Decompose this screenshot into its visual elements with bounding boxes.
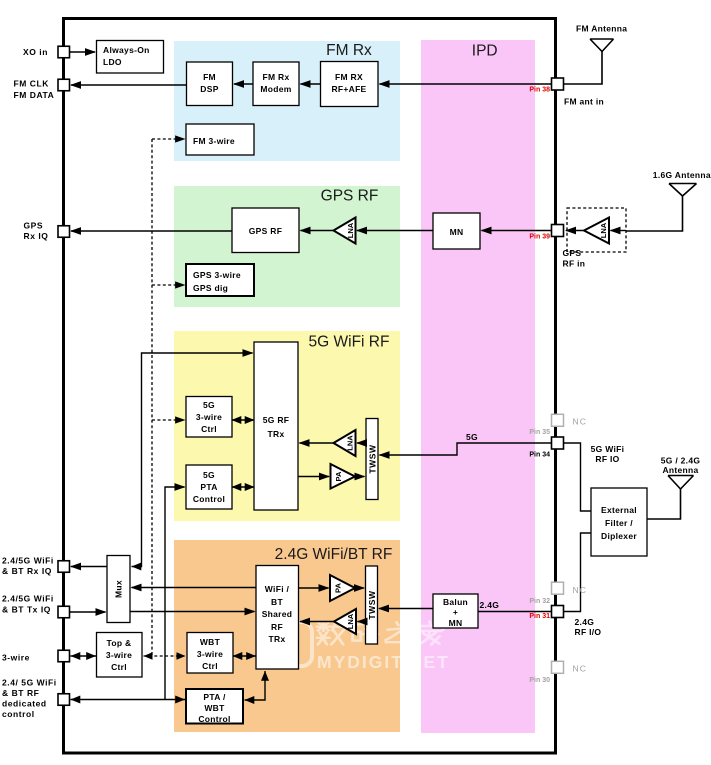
chip outline (64, 19, 556, 754)
svg-text:2.4G: 2.4G (575, 617, 595, 627)
block Balun + MN (433, 594, 478, 628)
wire 5G 3-wire Ctrl to TRx (232, 419, 255, 421)
svg-text:NC: NC (573, 585, 587, 595)
svg-text:Modem: Modem (260, 84, 291, 94)
svg-text:5G: 5G (203, 470, 215, 480)
svg-text:2.4G WiFi/BT RF: 2.4G WiFi/BT RF (275, 546, 393, 563)
pin 3-wire (58, 650, 70, 662)
svg-text:FM Rx: FM Rx (326, 42, 372, 59)
svg-text:dedicated: dedicated (2, 699, 47, 709)
svg-text:Top &: Top & (107, 638, 132, 648)
svg-text:Pin 39: Pin 39 (529, 234, 550, 241)
svg-text:Pin 32: Pin 32 (529, 598, 550, 605)
pin 34 (552, 437, 564, 449)
svg-text:1.6G Antenna: 1.6G Antenna (653, 170, 711, 180)
svg-text:Mux: Mux (114, 580, 124, 598)
wire ext LNA to pin39 (566, 230, 584, 232)
wire PTA control feed (165, 487, 185, 700)
wire FM Rx Modem to FM DSP (234, 83, 253, 85)
svg-text:TRx: TRx (268, 429, 285, 439)
wire TRx to 2.4G PA (299, 587, 329, 589)
wire FM antenna to pin38 (564, 52, 602, 85)
wire Balun to pin31 (478, 611, 552, 613)
pin dedicated control (58, 694, 70, 706)
svg-text:TWSW: TWSW (368, 444, 378, 474)
wire TRx to 5G PA (298, 476, 329, 478)
svg-text:FM: FM (203, 72, 216, 82)
block GPS RF (232, 208, 299, 253)
svg-text:3-wire: 3-wire (197, 649, 223, 659)
svg-text:FM DATA: FM DATA (14, 90, 55, 100)
svg-text:WBT: WBT (200, 637, 221, 647)
block 5G PTA Control (186, 465, 232, 509)
svg-text:RF IO: RF IO (595, 454, 619, 464)
svg-text:PTA /: PTA / (203, 692, 226, 702)
amplifier LNA external GPS (584, 218, 609, 244)
5G WiFi RF region (174, 331, 400, 521)
wire 2.4G LNA to TRx (300, 621, 334, 623)
switch TWSW 5G (366, 419, 378, 500)
svg-text:PA: PA (334, 471, 343, 481)
svg-text:Shared: Shared (262, 609, 293, 619)
svg-text:& BT RF: & BT RF (2, 688, 39, 698)
block Top & 3-wire Ctrl (97, 633, 143, 678)
wire Balun to TWSW (379, 608, 433, 610)
wire 5G PTA Control to TRx (232, 486, 255, 488)
block FM 3-wire (186, 124, 254, 155)
wire MN to LNA GPS (357, 230, 433, 232)
pin 39 (552, 225, 564, 237)
pin FM CLK/DATA (58, 79, 70, 91)
svg-text:5G: 5G (466, 432, 478, 442)
GPS RF region (174, 186, 400, 307)
FM Rx region (174, 41, 400, 161)
wire FM RX RF+AFE to FM Rx Modem (301, 83, 321, 85)
dashed wire to FM 3-wire (152, 138, 185, 140)
svg-text:Ctrl: Ctrl (201, 424, 217, 434)
svg-text:LDO: LDO (103, 57, 122, 67)
block 5G 3-wire Ctrl (186, 397, 232, 438)
svg-text:MN: MN (450, 227, 464, 237)
watermark CJK text (317, 622, 443, 645)
block External Filter / Diplexer (591, 488, 647, 556)
svg-text:Balun: Balun (443, 597, 468, 607)
svg-text:NC: NC (573, 417, 587, 427)
svg-text:Rx IQ: Rx IQ (24, 231, 49, 241)
wire pin38 to FM RX RF+AFE (380, 83, 552, 85)
block PTA / WBT Control (186, 689, 243, 724)
wire GPS RF to GPS Rx IQ pin (71, 230, 232, 232)
svg-text:5G / 2.4G: 5G / 2.4G (661, 456, 701, 466)
switch TWSW 2.4G (366, 566, 378, 644)
wire External Filter to pin31 (564, 533, 591, 612)
dashed control bus vertical (151, 139, 153, 656)
svg-text:NC: NC (573, 664, 587, 674)
wire TWSW to pin34 (380, 443, 552, 455)
pin 38 (552, 78, 564, 90)
block WiFi/BT Shared RF TRx (256, 566, 299, 670)
svg-text:Filter /: Filter / (605, 518, 633, 528)
block WBT 3-wire Ctrl (187, 633, 233, 674)
amplifier LNA 2.4G (334, 609, 356, 634)
svg-text:5G WiFi: 5G WiFi (591, 444, 625, 454)
pin 35 NC (552, 414, 564, 426)
char jia (417, 622, 443, 645)
svg-text:5G: 5G (203, 400, 215, 410)
svg-text:2.4/5G WiFi: 2.4/5G WiFi (2, 594, 54, 604)
amplifier PA 2.4G (330, 575, 355, 601)
char ma (350, 623, 378, 642)
svg-text:GPS: GPS (563, 248, 582, 258)
svg-text:Diplexer: Diplexer (601, 531, 637, 541)
IPD region (421, 40, 535, 733)
svg-text:GPS: GPS (24, 221, 44, 231)
pin 31 (552, 606, 564, 618)
svg-text:WBT: WBT (204, 703, 225, 713)
svg-text:PA: PA (334, 582, 343, 592)
svg-text:control: control (2, 709, 35, 719)
svg-text:FM Rx: FM Rx (263, 72, 290, 82)
2.4G WiFi/BT RF region (174, 540, 400, 732)
svg-text:3-wire: 3-wire (2, 653, 30, 663)
wire PTA/WBT Control to WiFi/BT TRx bottom (245, 671, 266, 700)
svg-text:5G RF: 5G RF (263, 415, 290, 425)
svg-text:RF: RF (271, 622, 283, 632)
pin 30 NC (552, 661, 564, 673)
block Always-On LDO (97, 41, 164, 74)
wire 2.4G PA to TWSW (355, 587, 364, 589)
watermark logo (268, 622, 312, 666)
svg-text:FM CLK: FM CLK (14, 79, 50, 89)
wire Tx IQ pin to Mux (70, 611, 106, 613)
svg-text:& BT Tx IQ: & BT Tx IQ (2, 605, 51, 615)
svg-text:Ctrl: Ctrl (111, 662, 127, 672)
svg-text:FM RX: FM RX (335, 72, 363, 82)
wire FM DSP to FM CLK/DATA pin (71, 84, 187, 86)
pin GPS Rx IQ (58, 226, 70, 238)
svg-text:BT: BT (271, 597, 283, 607)
wire XO in pin to LDO (70, 51, 96, 53)
svg-text:WiFi /: WiFi / (265, 584, 290, 594)
svg-text:MN: MN (449, 618, 463, 628)
amplifier PA 5G (331, 464, 356, 489)
wire WBT 3-wire Ctrl to WiFi/BT TRx (233, 655, 257, 657)
svg-text:3-wire: 3-wire (106, 650, 132, 660)
wire pin39 to MN (482, 230, 552, 232)
pin 32 NC (552, 582, 564, 594)
svg-text:RF in: RF in (563, 259, 586, 269)
svg-text:Pin 35: Pin 35 (529, 429, 550, 436)
svg-text:Control: Control (198, 714, 230, 724)
svg-text:LNA: LNA (346, 435, 355, 451)
svg-text:& BT Rx IQ: & BT Rx IQ (2, 566, 52, 576)
FM antenna symbol (590, 39, 614, 52)
svg-text:Always-On: Always-On (103, 45, 150, 55)
pin Tx IQ (58, 606, 70, 618)
svg-text:RF+AFE: RF+AFE (331, 84, 366, 94)
1.6G antenna symbol (669, 184, 697, 197)
svg-text:FM Antenna: FM Antenna (576, 24, 627, 34)
amplifier LNA GPS (334, 218, 356, 244)
svg-text:LNA: LNA (346, 613, 355, 629)
wire Mux to WiFi/BT TRx (130, 611, 255, 613)
dashed wire Top Ctrl to WBT 3-wire Ctrl (144, 655, 186, 657)
svg-text:MYDIGIT.NET: MYDIGIT.NET (317, 652, 450, 672)
svg-text:Pin 38: Pin 38 (529, 87, 550, 94)
svg-text:GPS RF: GPS RF (321, 188, 379, 205)
5G/2.4G antenna symbol (668, 476, 694, 490)
wire TWSW to 5G LNA (357, 442, 366, 444)
wire 5G LNA to TRx (300, 442, 334, 444)
wire 5G/2.4G antenna to External Filter (647, 489, 681, 519)
block FM Rx Modem (253, 62, 299, 106)
amplifier LNA 5G (334, 430, 356, 456)
block FM DSP (187, 62, 233, 106)
wire dedicated control pin to PTA/WBT Control (71, 699, 186, 701)
wire LNA GPS to GPS RF (301, 230, 334, 232)
dashed wire to 5G 3-wire Ctrl (152, 419, 185, 421)
svg-text:Pin 30: Pin 30 (529, 677, 550, 684)
pin Rx IQ (58, 561, 70, 573)
wire 5G PA to TWSW (355, 476, 365, 478)
svg-text:Control: Control (193, 494, 225, 504)
block MN (433, 213, 480, 249)
svg-text:DSP: DSP (200, 84, 218, 94)
svg-text:3-wire: 3-wire (196, 412, 222, 422)
external LNA dashed box (567, 208, 626, 252)
svg-text:External: External (601, 505, 637, 515)
svg-text:LNA: LNA (346, 222, 355, 238)
svg-text:PTA: PTA (200, 482, 217, 492)
svg-text:TRx: TRx (269, 634, 286, 644)
svg-text:5G WiFi RF: 5G WiFi RF (309, 334, 390, 351)
wire WiFi/BT TRx to Mux (132, 587, 257, 589)
block FM RX RF+AFE (321, 62, 379, 107)
svg-text:2.4/ 5G WiFi: 2.4/ 5G WiFi (2, 678, 57, 688)
wire pin34 to External Filter (564, 443, 592, 511)
svg-text:XO in: XO in (23, 47, 48, 57)
svg-text:IPD: IPD (472, 43, 498, 60)
svg-text:Pin 34: Pin 34 (529, 452, 550, 459)
svg-text:Antenna: Antenna (662, 465, 698, 475)
char zhi (386, 622, 409, 642)
svg-text:LNA: LNA (599, 222, 608, 238)
dashed wire to GPS 3-wire (152, 284, 185, 286)
block Mux (107, 556, 130, 623)
svg-text:FM ant in: FM ant in (564, 97, 604, 107)
wire Mux to Rx IQ pin (71, 566, 107, 568)
wire TWSW to 2.4G LNA (358, 621, 366, 623)
svg-text:FM 3-wire: FM 3-wire (193, 136, 235, 146)
svg-text:Pin 31: Pin 31 (529, 613, 550, 620)
svg-text:RF I/O: RF I/O (575, 627, 602, 637)
svg-text:Ctrl: Ctrl (202, 661, 218, 671)
svg-text:+: + (453, 607, 458, 617)
svg-text:2.4G: 2.4G (480, 600, 500, 610)
wire 1.6G antenna to ext LNA box (626, 196, 683, 231)
svg-text:2.4/5G WiFi: 2.4/5G WiFi (2, 556, 54, 566)
char shu (317, 622, 345, 644)
svg-text:GPS dig: GPS dig (193, 283, 228, 293)
block GPS 3-wire / GPS dig (186, 264, 254, 296)
svg-text:GPS RF: GPS RF (249, 226, 282, 236)
block 5G RF TRx (254, 342, 298, 510)
wire ext box edge to ext LNA (611, 230, 627, 232)
wire 5G IQ bus Mux to 5G RF TRx (132, 353, 253, 567)
svg-text:GPS 3-wire: GPS 3-wire (193, 270, 241, 280)
wire 3-wire pin to Top Ctrl (71, 655, 97, 657)
pin XO in (58, 46, 70, 58)
svg-text:TWSW: TWSW (367, 590, 377, 620)
